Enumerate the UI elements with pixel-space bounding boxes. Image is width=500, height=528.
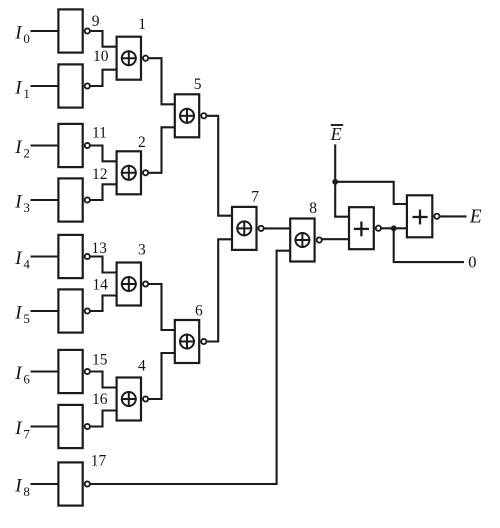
svg-text:11: 11 bbox=[92, 125, 107, 142]
svg-text:14: 14 bbox=[92, 277, 108, 294]
wire: OR gate B output to E bbox=[437, 215, 467, 217]
svg-text:13: 13 bbox=[91, 240, 107, 257]
svg-text:9: 9 bbox=[92, 13, 100, 30]
svg-text:E: E bbox=[330, 124, 342, 144]
svg-text:4: 4 bbox=[138, 358, 146, 375]
input wire I4 bbox=[31, 255, 61, 257]
svg-text:I: I bbox=[14, 23, 23, 44]
buffer 10 (input I1 inverter box) bbox=[58, 64, 90, 107]
input label I4 bbox=[14, 248, 30, 271]
XOR gate 7 bbox=[232, 207, 264, 250]
svg-text:I: I bbox=[14, 248, 23, 269]
wire: Ebar down to OR gate A top input bbox=[335, 144, 351, 216]
wire: XOR gate 3 output to XOR gate 6 input bbox=[146, 284, 177, 330]
svg-text:3: 3 bbox=[138, 242, 146, 259]
input wire I2 bbox=[31, 144, 61, 146]
buffer 17 (input I8 inverter box) bbox=[58, 462, 90, 505]
wire: OR gate A output to OR gate B bottom input bbox=[378, 227, 409, 229]
input label I5 bbox=[14, 303, 30, 326]
svg-text:17: 17 bbox=[91, 453, 107, 470]
input label Ebar (E with overline) bbox=[330, 124, 344, 144]
input wire I0 bbox=[31, 30, 61, 32]
buffer 12 (input I3 inverter box) bbox=[58, 178, 90, 221]
buffer 15 (input I6 inverter box) bbox=[58, 350, 90, 393]
XOR gate 1 bbox=[117, 37, 149, 80]
wire: XOR gate 6 output to XOR gate 7 input bbox=[204, 239, 234, 341]
XOR gate 5 bbox=[175, 94, 207, 137]
XOR gate 2 bbox=[117, 151, 149, 194]
XOR gate 8 bbox=[290, 219, 322, 262]
svg-text:I: I bbox=[14, 78, 23, 99]
input wire I8 bbox=[31, 483, 61, 485]
wire 12: buffer 12 output to XOR gate 2 input bbox=[87, 184, 118, 200]
wire: branch down to output 0 bbox=[394, 228, 464, 262]
buffer 9 (input I0 inverter box) bbox=[58, 9, 90, 52]
input wire I7 bbox=[31, 425, 61, 427]
svg-text:0: 0 bbox=[23, 31, 30, 46]
svg-text:5: 5 bbox=[194, 76, 202, 93]
wire 16: buffer 16 output to XOR gate 4 input bbox=[87, 411, 118, 427]
buffer 13 (input I4 inverter box) bbox=[58, 235, 90, 278]
input label I2 bbox=[14, 137, 30, 160]
XOR gate 3 bbox=[117, 263, 149, 306]
input label I7 bbox=[14, 418, 30, 441]
input label I6 bbox=[14, 363, 30, 386]
wire 13: buffer 13 output to XOR gate 3 input bbox=[87, 257, 118, 273]
svg-text:E: E bbox=[469, 207, 482, 228]
svg-text:6: 6 bbox=[195, 303, 203, 320]
svg-text:8: 8 bbox=[309, 200, 317, 217]
input wire I3 bbox=[31, 199, 61, 201]
input label I3 bbox=[14, 192, 30, 215]
XOR gate 4 bbox=[117, 378, 149, 421]
svg-text:2: 2 bbox=[138, 134, 146, 151]
wire: XOR gate 8 output to OR gate A bottom input bbox=[319, 238, 351, 240]
OR gate B (+) bbox=[407, 195, 440, 237]
buffer 14 (input I5 inverter box) bbox=[58, 289, 90, 332]
wire: Ebar branch to OR gate B top input bbox=[335, 182, 409, 204]
svg-text:6: 6 bbox=[23, 371, 30, 386]
OR gate A (+) bbox=[349, 207, 381, 249]
svg-text:15: 15 bbox=[92, 352, 108, 369]
svg-text:1: 1 bbox=[138, 16, 146, 33]
wire 15: buffer 15 output to XOR gate 4 input bbox=[87, 372, 118, 388]
wire 14: buffer 14 output to XOR gate 3 input bbox=[87, 296, 118, 312]
svg-text:16: 16 bbox=[92, 391, 108, 408]
input wire I5 bbox=[31, 310, 61, 312]
wire: XOR gate 4 output to XOR gate 6 input bbox=[146, 353, 177, 399]
XOR gate 6 bbox=[175, 320, 207, 363]
buffer 11 (input I2 inverter box) bbox=[58, 124, 90, 167]
wire: XOR gate 7 output to XOR gate 8 top input bbox=[261, 227, 292, 229]
input wire I1 bbox=[31, 85, 61, 87]
svg-text:4: 4 bbox=[23, 256, 30, 271]
svg-text:12: 12 bbox=[92, 166, 108, 183]
svg-text:I: I bbox=[14, 418, 23, 439]
svg-text:8: 8 bbox=[23, 484, 30, 499]
svg-text:0: 0 bbox=[468, 253, 476, 272]
svg-text:I: I bbox=[14, 476, 23, 497]
svg-text:1: 1 bbox=[23, 86, 30, 101]
wire 11: buffer 11 output to XOR gate 2 input bbox=[87, 146, 118, 162]
wire 17: buffer 17 output to XOR gate 8 bottom input bbox=[87, 251, 292, 484]
svg-text:7: 7 bbox=[251, 189, 259, 206]
wire: XOR gate 5 output to XOR gate 7 input bbox=[204, 116, 234, 216]
svg-text:7: 7 bbox=[23, 426, 30, 441]
input label I8 bbox=[14, 476, 30, 499]
svg-text:I: I bbox=[14, 303, 23, 324]
wire: XOR gate 1 output to XOR gate 5 input bbox=[146, 58, 177, 104]
svg-text:I: I bbox=[14, 363, 23, 384]
input wire I6 bbox=[31, 370, 61, 372]
buffer 16 (input I7 inverter box) bbox=[58, 405, 90, 448]
junction dot on Ebar net bbox=[332, 179, 338, 185]
svg-text:5: 5 bbox=[23, 311, 30, 326]
svg-text:I: I bbox=[14, 192, 23, 213]
svg-text:2: 2 bbox=[23, 145, 30, 160]
wire: XOR gate 2 output to XOR gate 5 input bbox=[146, 127, 177, 173]
input label I1 bbox=[14, 78, 30, 101]
svg-text:I: I bbox=[14, 137, 23, 158]
wire 9: buffer 9 output to XOR gate 1 input bbox=[87, 31, 118, 47]
junction dot on OR gate A output net bbox=[391, 225, 397, 231]
svg-text:3: 3 bbox=[23, 200, 30, 215]
svg-text:10: 10 bbox=[93, 48, 109, 65]
input label I0 bbox=[14, 23, 30, 46]
wire 10: buffer 10 output to XOR gate 1 input bbox=[87, 70, 118, 86]
